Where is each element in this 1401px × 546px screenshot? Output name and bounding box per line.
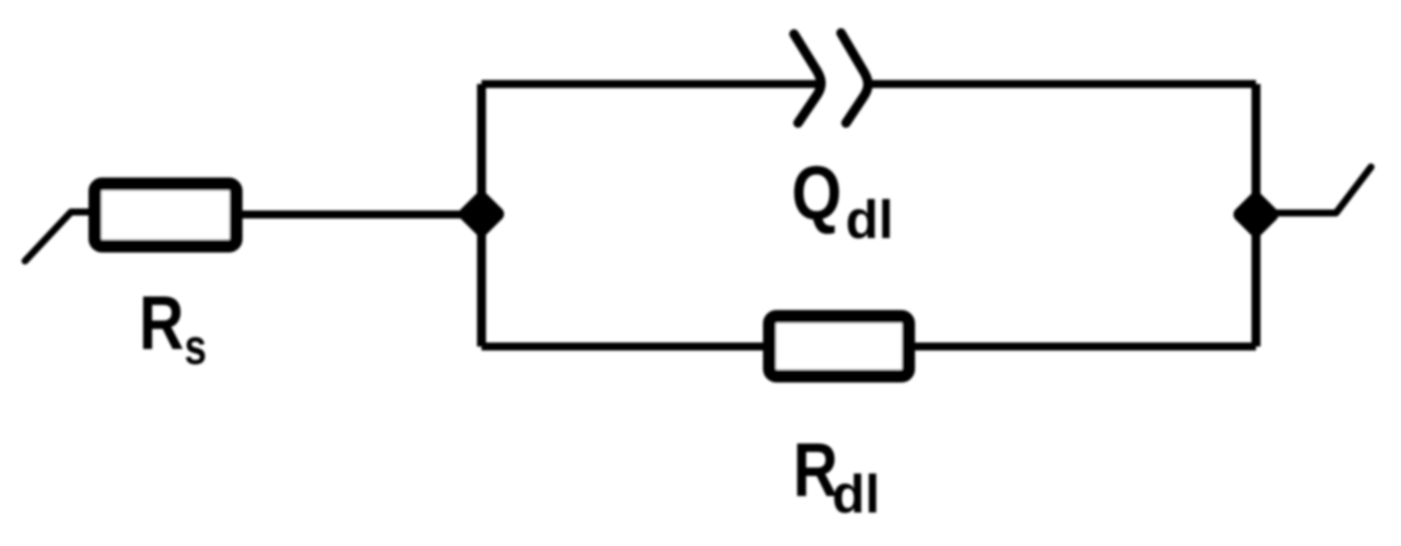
node junction right — [1231, 189, 1282, 240]
label Rs main R — [139, 280, 184, 365]
svg-text:Q: Q — [792, 150, 842, 235]
wire bottom branch — [482, 343, 1257, 351]
resistor R_s — [95, 184, 236, 246]
svg-text:dl: dl — [832, 465, 880, 525]
label Rs subscript s — [184, 319, 206, 375]
resistor R_dl — [770, 317, 909, 377]
wire right terminal lead — [1270, 167, 1371, 213]
svg-text:R: R — [139, 280, 184, 365]
capacitor CPE arc 2 — [841, 33, 868, 123]
wire left vertical branch — [477, 84, 486, 347]
wire top branch right segment — [867, 80, 1256, 88]
wire left terminal lead — [25, 212, 90, 261]
svg-text:dl: dl — [846, 190, 894, 250]
svg-text:s: s — [184, 319, 206, 375]
label Qdl main Q — [792, 150, 842, 235]
label Rdl subscript dl — [832, 465, 880, 525]
wire R_s to left node — [242, 211, 482, 219]
wire top branch left segment — [482, 80, 820, 88]
node junction left — [456, 189, 507, 240]
label Rdl main R — [793, 427, 838, 512]
wire right vertical branch — [1252, 84, 1261, 347]
capacitor CPE arc 1 — [794, 34, 821, 123]
label Qdl subscript dl — [846, 190, 894, 250]
